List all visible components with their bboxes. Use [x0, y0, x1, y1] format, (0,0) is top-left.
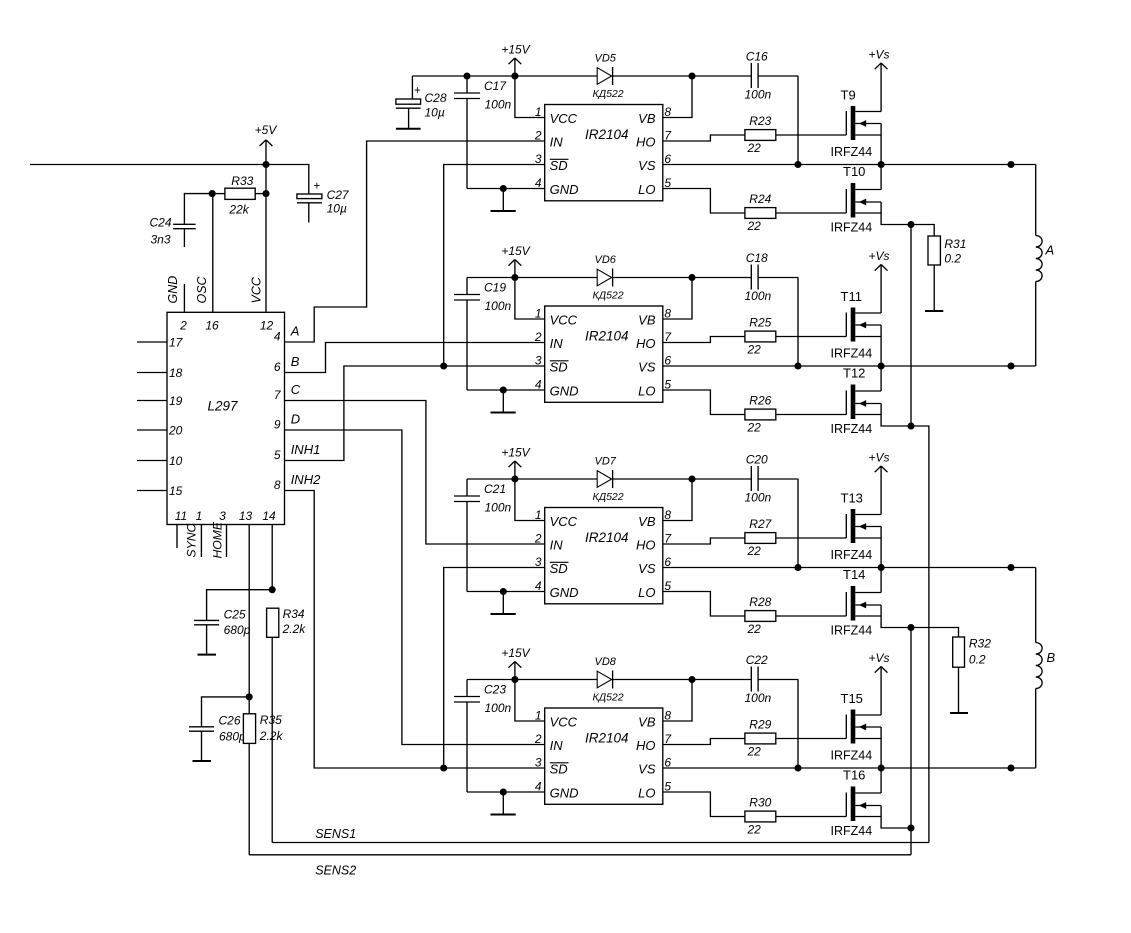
node winding tap (block 4) [1007, 764, 1014, 771]
node VS tap junction (block 4) [794, 764, 801, 771]
wire OSC column to pin 16 [212, 194, 214, 313]
wire VCC column to pin 12 [265, 165, 267, 313]
svg-text:R35: R35 [260, 713, 282, 727]
svg-text:8: 8 [274, 478, 281, 492]
svg-text:+15V: +15V [501, 43, 530, 57]
wire GND pin 4 (block 2) [467, 389, 545, 391]
svg-text:22: 22 [747, 622, 762, 636]
svg-text:L297: L297 [208, 399, 239, 414]
svg-text:R23: R23 [749, 114, 771, 128]
node VS junction (block 4) [878, 764, 885, 771]
node VB junction (block 1) [688, 72, 695, 79]
wire SENS1 column [911, 426, 929, 843]
svg-text:22: 22 [747, 544, 762, 558]
svg-text:+Vs: +Vs [869, 249, 890, 263]
svg-text:C23: C23 [484, 683, 506, 697]
svg-text:VB: VB [638, 313, 656, 328]
pin 15 [137, 490, 167, 492]
svg-text:100n: 100n [745, 88, 772, 102]
svg-text:IRFZ44: IRFZ44 [831, 145, 873, 159]
inductor winding A [1035, 165, 1037, 236]
svg-text:КД522: КД522 [593, 491, 624, 503]
svg-text:SENS1: SENS1 [315, 827, 356, 841]
inductor winding B [1035, 568, 1037, 643]
svg-text:VD6: VD6 [595, 254, 617, 266]
resistor R24 22 (LO gate) [663, 189, 745, 214]
svg-text:11: 11 [175, 509, 187, 523]
svg-text:17: 17 [169, 336, 184, 350]
wire +5V line to C27 [266, 165, 309, 195]
svg-text:OSC: OSC [195, 275, 209, 303]
svg-text:100n: 100n [485, 98, 512, 112]
svg-text:100n: 100n [485, 299, 512, 313]
wire net B (pin 6 to IN2) [285, 343, 545, 373]
svg-text:3: 3 [535, 555, 542, 569]
node source junction (block 3) [907, 624, 914, 631]
svg-text:HO: HO [636, 336, 656, 351]
pin 2 (GND) [183, 284, 185, 312]
transistor T10 IRFZ44 (low side) [845, 189, 847, 213]
node +15V junction (block 1) [511, 72, 518, 79]
svg-text:2.2k: 2.2k [259, 729, 284, 743]
node +15V junction (block 4) [511, 676, 518, 683]
svg-text:T15: T15 [841, 691, 863, 706]
IC IR2104 (block 4) [545, 708, 663, 804]
wire net SENS2 [249, 854, 911, 856]
svg-text:VB: VB [638, 514, 656, 529]
svg-text:680p: 680p [224, 623, 251, 637]
wire bootstrap to VS (block 2) [797, 278, 799, 367]
svg-text:LO: LO [638, 786, 655, 801]
svg-text:R29: R29 [749, 718, 771, 732]
node VS junction (block 3) [878, 564, 885, 571]
wire VCC pin 1 (block 2) [515, 278, 545, 320]
svg-text:100n: 100n [485, 701, 512, 715]
svg-text:T9: T9 [841, 88, 856, 103]
svg-text:18: 18 [169, 366, 183, 380]
svg-text:+5V: +5V [255, 123, 278, 137]
svg-text:IN: IN [550, 538, 564, 553]
svg-text:16: 16 [205, 319, 219, 333]
svg-text:C20: C20 [746, 453, 768, 467]
svg-text:A: A [1045, 243, 1055, 258]
diode VD6 (&#1050;&#1044;522) [597, 269, 611, 286]
svg-text:SD: SD [550, 158, 568, 173]
wire VCC pin 1 (block 4) [515, 680, 545, 722]
resistor R28 22 (LO gate) [663, 592, 745, 617]
svg-text:IN: IN [550, 738, 564, 753]
node R33 right junction [262, 190, 269, 197]
wire net INH2 (pin 8 to SD4) [285, 491, 545, 769]
resistor R34 [267, 608, 279, 637]
svg-text:КД522: КД522 [593, 692, 624, 704]
resistor R31 0.2 (phase A sense) [911, 225, 934, 237]
svg-text:14: 14 [262, 509, 276, 523]
svg-text:2.2k: 2.2k [282, 622, 307, 636]
svg-text:3: 3 [535, 152, 542, 166]
svg-text:C18: C18 [746, 251, 768, 265]
svg-text:R30: R30 [749, 796, 771, 810]
node +15V junction (block 3) [511, 475, 518, 482]
IC IR2104 (block 3) [545, 508, 663, 604]
svg-text:T14: T14 [843, 567, 865, 582]
svg-text:2: 2 [534, 129, 542, 143]
svg-text:VD8: VD8 [595, 656, 617, 668]
ground (block 4) [502, 792, 504, 815]
svg-text:R33: R33 [231, 174, 253, 188]
svg-text:IR2104: IR2104 [585, 127, 629, 142]
node INH1-SD1 junction [440, 362, 447, 369]
transistor T12 IRFZ44 (low side) [845, 391, 847, 415]
svg-text:R26: R26 [749, 394, 771, 408]
svg-text:10µ: 10µ [425, 106, 445, 120]
svg-text:+: + [414, 85, 421, 97]
svg-text:SD: SD [550, 561, 568, 576]
svg-text:3: 3 [219, 509, 226, 523]
svg-text:4: 4 [274, 330, 281, 344]
wire VB pin 8 (block 4) [663, 680, 692, 722]
resistor R33 [212, 193, 225, 195]
wire bootstrap to VS (block 1) [797, 76, 799, 165]
svg-text:IR2104: IR2104 [585, 731, 629, 746]
svg-text:C17: C17 [484, 79, 507, 93]
svg-text:A: A [290, 324, 300, 339]
capacitor C17 100n (bypass) [466, 76, 468, 93]
node VB junction (block 2) [688, 274, 695, 281]
capacitor C28 [411, 76, 413, 99]
ground (block 1) [502, 189, 504, 212]
svg-text:HOME: HOME [211, 521, 225, 558]
wire net SENS1 [272, 842, 929, 844]
svg-text:100n: 100n [745, 491, 772, 505]
wire SENS2 column [910, 828, 912, 855]
svg-text:IRFZ44: IRFZ44 [831, 548, 873, 562]
svg-text:КД522: КД522 [593, 290, 624, 302]
IC IR2104 (block 1) [545, 105, 663, 201]
svg-text:19: 19 [169, 394, 183, 408]
wire pin 13 column [248, 525, 250, 697]
IC U1 L297 [167, 312, 285, 524]
wire net D (pin 9 to IN4) [285, 430, 545, 745]
node VB junction (block 3) [688, 475, 695, 482]
node R33 left junction [209, 190, 216, 197]
node VB junction (block 4) [688, 676, 695, 683]
node GND junction (block 1) [500, 185, 507, 192]
node C26-R35 junction [246, 693, 253, 700]
svg-text:C27: C27 [327, 188, 350, 202]
resistor R27 22 (HO gate) [663, 538, 745, 544]
node GND junction (block 4) [500, 788, 507, 795]
svg-text:IRFZ44: IRFZ44 [831, 221, 873, 235]
svg-text:3: 3 [535, 756, 542, 770]
node VS junction (block 1) [878, 161, 885, 168]
wire net C (pin 7 to IN3) [285, 401, 545, 545]
pin 19 [137, 400, 167, 402]
transistor T15 IRFZ44 (high side) [845, 715, 847, 739]
wire +15V rail (block 4) [467, 679, 597, 681]
resistor R35 [243, 714, 255, 744]
svg-text:GND: GND [550, 585, 579, 600]
capacitor C19 100n (bypass) [466, 278, 468, 295]
svg-text:1: 1 [535, 307, 542, 321]
diode VD8 (&#1050;&#1044;522) [597, 671, 611, 688]
wire VS line (block 2) [663, 365, 1036, 367]
svg-text:C28: C28 [425, 91, 447, 105]
svg-text:8: 8 [664, 307, 671, 321]
svg-text:VB: VB [638, 715, 656, 730]
transistor T16 IRFZ44 (low side) [845, 793, 847, 817]
wire GND pin 4 (block 1) [467, 188, 545, 190]
svg-text:LO: LO [638, 585, 655, 600]
node winding tap (block 2) [1007, 362, 1014, 369]
diode VD5 (&#1050;&#1044;522) [597, 68, 611, 85]
svg-text:T10: T10 [843, 164, 865, 179]
svg-text:SENS2: SENS2 [315, 864, 356, 878]
svg-text:R28: R28 [749, 595, 771, 609]
node C25-R34 junction [269, 586, 276, 593]
svg-text:IR2104: IR2104 [585, 329, 629, 344]
resistor R29 22 (HO gate) [663, 739, 745, 745]
svg-text:100n: 100n [485, 501, 512, 515]
resistor R23 22 (HO gate) [663, 135, 745, 141]
svg-text:2: 2 [534, 732, 542, 746]
node GND junction (block 2) [500, 386, 507, 393]
svg-text:C26: C26 [219, 714, 241, 728]
svg-text:3: 3 [535, 354, 542, 368]
svg-text:IRFZ44: IRFZ44 [831, 624, 873, 638]
svg-text:2: 2 [179, 319, 187, 333]
svg-text:INH1: INH1 [291, 442, 321, 457]
wire bootstrap to VS (block 3) [797, 479, 799, 568]
svg-text:22: 22 [747, 219, 762, 233]
svg-text:C19: C19 [484, 281, 506, 295]
capacitor C22 100n (bootstrap) [750, 667, 752, 692]
svg-text:R25: R25 [749, 316, 771, 330]
node VS tap junction (block 1) [794, 161, 801, 168]
svg-text:22k: 22k [228, 203, 249, 217]
capacitor C26 [202, 697, 250, 727]
svg-text:680p: 680p [219, 730, 246, 744]
transistor T11 IRFZ44 (high side) [845, 313, 847, 337]
wire input line [30, 164, 266, 166]
svg-text:LO: LO [638, 384, 655, 399]
resistor R32 0.2 (phase B sense) [911, 628, 959, 638]
wire net SD3 link [444, 568, 545, 769]
svg-text:LO: LO [638, 182, 655, 197]
svg-text:8: 8 [664, 709, 671, 723]
capacitor C23 100n (bypass) [466, 680, 468, 697]
wire VB pin 8 (block 3) [663, 479, 692, 521]
node VS tap junction (block 3) [794, 564, 801, 571]
svg-text:+15V: +15V [501, 244, 530, 258]
svg-text:22: 22 [747, 421, 762, 435]
svg-text:R27: R27 [749, 517, 772, 531]
svg-text:IRFZ44: IRFZ44 [831, 422, 873, 436]
node winding tap (block 1) [1007, 161, 1014, 168]
svg-text:VCC: VCC [550, 715, 578, 730]
svg-text:C: C [291, 382, 301, 397]
svg-text:C25: C25 [224, 608, 246, 622]
pin 1 (SYNC) [200, 525, 202, 558]
svg-text:VD5: VD5 [595, 53, 617, 65]
wire net SD1 link [444, 165, 545, 367]
svg-text:R31: R31 [944, 237, 966, 251]
svg-text:R32: R32 [969, 637, 991, 651]
node source junction (block 4) [907, 824, 914, 831]
svg-text:T11: T11 [841, 289, 862, 304]
svg-text:SD: SD [550, 762, 568, 777]
svg-text:2: 2 [534, 330, 542, 344]
capacitor C16 100n (bootstrap) [750, 63, 752, 88]
svg-text:+15V: +15V [501, 646, 530, 660]
svg-text:VD7: VD7 [595, 456, 617, 468]
svg-text:IR2104: IR2104 [585, 530, 629, 545]
svg-text:22: 22 [747, 141, 762, 155]
node winding tap (block 3) [1007, 564, 1014, 571]
wire GND pin 4 (block 4) [467, 791, 545, 793]
svg-text:IN: IN [550, 135, 564, 150]
svg-text:8: 8 [664, 105, 671, 119]
svg-text:22: 22 [747, 823, 762, 837]
wire net A (pin 4 to IN1) [285, 141, 545, 342]
wire bootstrap to VS (block 4) [797, 680, 799, 769]
svg-text:22: 22 [747, 745, 762, 759]
wire VB pin 8 (block 1) [663, 76, 692, 118]
svg-text:10: 10 [169, 454, 183, 468]
svg-text:VS: VS [638, 561, 656, 576]
svg-text:HO: HO [636, 738, 656, 753]
wire pin 14 column [271, 525, 273, 590]
svg-text:VS: VS [638, 762, 656, 777]
pin 11 [176, 525, 178, 549]
svg-text:8: 8 [664, 508, 671, 522]
svg-text:SYNC: SYNC [185, 523, 199, 557]
IC IR2104 (block 2) [545, 306, 663, 402]
node source junction (block 1) [907, 221, 914, 228]
transistor T14 IRFZ44 (low side) [845, 592, 847, 616]
wire VCC pin 1 (block 1) [515, 76, 545, 118]
wire VS line (block 1) [663, 164, 1036, 166]
wire VS line (block 3) [663, 567, 1036, 569]
svg-text:R34: R34 [283, 607, 305, 621]
svg-text:VB: VB [638, 111, 656, 126]
svg-text:R24: R24 [749, 192, 771, 206]
svg-text:HO: HO [636, 538, 656, 553]
svg-text:0.2: 0.2 [944, 252, 961, 266]
svg-text:+Vs: +Vs [869, 48, 890, 62]
svg-text:GND: GND [550, 384, 579, 399]
svg-text:SD: SD [550, 360, 568, 375]
wire GND pin 4 (block 3) [467, 591, 545, 593]
capacitor C24 [184, 194, 212, 225]
wire +15V rail (block 2) [467, 277, 597, 279]
node +15V junction (block 2) [511, 274, 518, 281]
svg-text:IRFZ44: IRFZ44 [831, 824, 873, 838]
wire VB pin 8 (block 2) [663, 278, 692, 320]
svg-text:C16: C16 [746, 50, 768, 64]
node VS tap junction (block 2) [794, 362, 801, 369]
svg-text:+15V: +15V [501, 446, 530, 460]
svg-text:B: B [1047, 650, 1056, 665]
svg-text:22: 22 [747, 343, 762, 357]
svg-text:1: 1 [196, 509, 203, 523]
ground (block 2) [502, 390, 504, 413]
transistor T13 IRFZ44 (high side) [845, 514, 847, 538]
svg-text:T12: T12 [843, 366, 865, 381]
svg-text:0.2: 0.2 [969, 653, 986, 667]
resistor R26 22 (LO gate) [663, 390, 745, 415]
node C17 rail tap [463, 72, 470, 79]
svg-text:IRFZ44: IRFZ44 [831, 749, 873, 763]
diode VD7 (&#1050;&#1044;522) [597, 471, 611, 488]
node +5V junction [262, 161, 269, 168]
svg-text:5: 5 [274, 448, 281, 462]
wire T10-T12 source link [910, 225, 912, 427]
svg-text:10µ: 10µ [327, 202, 347, 216]
transistor T9 IRFZ44 (high side) [845, 111, 847, 135]
capacitor C25 [207, 590, 273, 621]
ground (block 3) [502, 592, 504, 615]
capacitor C21 100n (bypass) [466, 479, 468, 496]
wire net INH1 (pin 5 to SD2) [285, 366, 545, 461]
svg-text:1: 1 [535, 508, 542, 522]
node VS junction (block 2) [878, 362, 885, 369]
svg-text:C24: C24 [150, 216, 172, 230]
pin 10 [137, 460, 167, 462]
wire +15V rail (block 1) [412, 75, 597, 77]
svg-text:+: + [314, 181, 321, 193]
svg-text:2: 2 [534, 532, 542, 546]
node source junction (block 2) [907, 422, 914, 429]
wire VCC pin 1 (block 3) [515, 479, 545, 521]
wire +15V rail (block 3) [467, 478, 597, 480]
svg-text:B: B [291, 354, 300, 369]
svg-text:D: D [291, 412, 300, 427]
svg-text:VCC: VCC [550, 313, 578, 328]
pin 18 [137, 372, 167, 374]
svg-text:+Vs: +Vs [869, 651, 890, 665]
svg-text:GND: GND [550, 786, 579, 801]
svg-text:GND: GND [166, 276, 180, 304]
svg-text:1: 1 [535, 709, 542, 723]
svg-text:6: 6 [274, 360, 281, 374]
capacitor C27 [297, 194, 322, 199]
svg-text:VCC: VCC [550, 514, 578, 529]
svg-text:GND: GND [550, 182, 579, 197]
svg-text:+Vs: +Vs [869, 451, 890, 465]
svg-text:VS: VS [638, 158, 656, 173]
resistor R30 22 (LO gate) [663, 792, 745, 817]
svg-text:VCC: VCC [250, 276, 264, 303]
svg-text:9: 9 [274, 418, 281, 432]
pin 20 [137, 429, 167, 431]
resistor R25 22 (HO gate) [663, 337, 745, 343]
wire T14-T16 source link [910, 628, 912, 829]
svg-text:IRFZ44: IRFZ44 [831, 347, 873, 361]
svg-text:C22: C22 [746, 653, 768, 667]
svg-text:КД522: КД522 [593, 88, 624, 100]
svg-text:100n: 100n [745, 691, 772, 705]
node INH2-SD3 junction [440, 764, 447, 771]
svg-text:13: 13 [239, 509, 253, 523]
svg-text:3n3: 3n3 [151, 233, 171, 247]
capacitor C20 100n (bootstrap) [750, 466, 752, 491]
svg-text:HO: HO [636, 135, 656, 150]
wire VS line (block 4) [663, 767, 1036, 769]
svg-text:INH2: INH2 [291, 472, 321, 487]
svg-text:T16: T16 [843, 768, 865, 783]
svg-text:15: 15 [169, 484, 183, 498]
